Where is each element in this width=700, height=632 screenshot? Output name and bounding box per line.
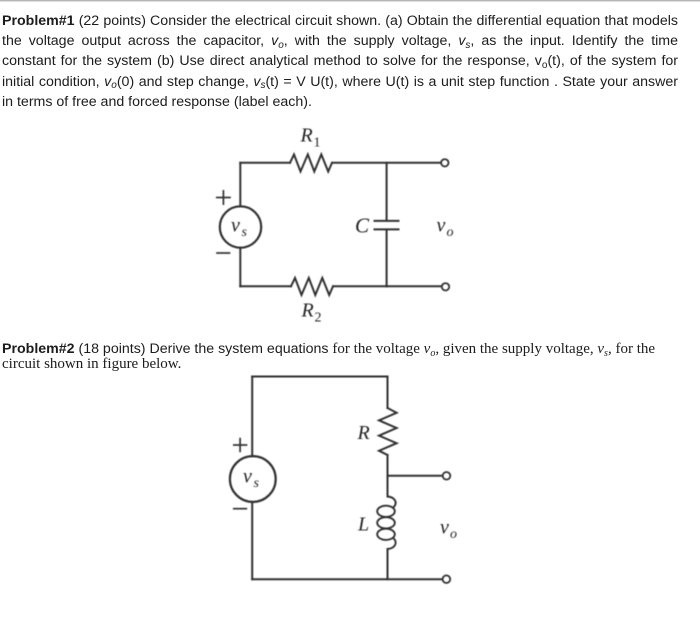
output terminal top (circuit 1)	[441, 159, 448, 166]
wire left vertical lower (circuit 2)	[251, 502, 253, 579]
svg-text:R: R	[300, 125, 313, 147]
wire left vertical lower	[239, 248, 241, 287]
svg-text:v: v	[440, 517, 449, 539]
+ sign of source vs (circuit 2)	[234, 439, 247, 452]
wire bottom horizontal (circuit 2)	[252, 578, 443, 580]
wire top horizontal (circuit 2)	[252, 376, 387, 378]
label vo (circuit 1)	[437, 215, 454, 241]
label C	[355, 214, 370, 238]
svg-text:o: o	[450, 527, 457, 542]
svg-text:v: v	[231, 215, 240, 237]
voltage source vs (circuit 2)	[230, 456, 276, 502]
paragraph 1 line 5	[2, 92, 678, 112]
label vs (circuit 1)	[231, 215, 248, 241]
top grey edge	[0, 0, 700, 1]
output terminal bottom (circuit 1)	[442, 283, 449, 290]
voltage source vs (circuit 1)	[220, 206, 261, 247]
wire bottom-left horizontal lead to R2	[240, 285, 291, 287]
label R1	[300, 125, 321, 151]
label R2	[301, 300, 322, 326]
paragraph 2 line 1	[2, 339, 678, 359]
output terminal bottom (circuit 2)	[443, 575, 451, 583]
svg-text:o: o	[447, 225, 454, 240]
svg-text:s: s	[242, 225, 248, 240]
wire bottom horizontal from R2 to output terminal	[333, 285, 441, 287]
+ sign of source vs (circuit 1)	[217, 191, 230, 204]
svg-text:C: C	[355, 214, 370, 238]
wire top-left horizontal lead to R1	[240, 162, 290, 164]
label vs (circuit 2)	[243, 466, 260, 492]
resistor R (vertical)	[379, 408, 397, 455]
wire from R to node	[387, 455, 389, 497]
wire left vertical upper	[239, 163, 241, 207]
label vo (circuit 2)	[440, 517, 457, 543]
- sign of source vs (circuit 1)	[217, 252, 230, 254]
paragraph 1 line 4	[2, 72, 678, 92]
svg-text:v: v	[437, 215, 446, 237]
wire from L to bottom wire	[387, 549, 389, 579]
resistor R2	[291, 278, 333, 295]
paragraph 1 line 2	[2, 31, 678, 51]
wire capacitor branch lower	[386, 230, 388, 286]
svg-text:L: L	[357, 514, 369, 536]
capacitor C	[375, 221, 399, 230]
resistor R1	[290, 154, 332, 171]
svg-text:1: 1	[314, 136, 321, 151]
paragraph 1 line 1	[2, 11, 678, 31]
- sign of source vs (circuit 2)	[234, 508, 247, 510]
svg-text:s: s	[254, 476, 260, 491]
node wire to output terminal top (circuit 2)	[388, 475, 443, 477]
paragraph 1 line 3	[2, 51, 678, 71]
output terminal top (circuit 2)	[443, 472, 451, 480]
inductor L	[377, 497, 395, 550]
label R (circuit 2)	[357, 422, 370, 444]
label L	[357, 514, 369, 536]
wire capacitor branch upper	[386, 163, 388, 220]
wire right vertical upper lead to R	[387, 377, 389, 409]
svg-text:v: v	[243, 466, 252, 488]
wire left vertical upper (circuit 2)	[251, 377, 253, 457]
paragraph 2 line 2	[2, 354, 678, 374]
wire top horizontal from R1 to output terminal	[332, 162, 441, 164]
svg-text:R: R	[301, 300, 314, 322]
svg-text:2: 2	[315, 311, 322, 326]
svg-text:R: R	[357, 422, 370, 444]
